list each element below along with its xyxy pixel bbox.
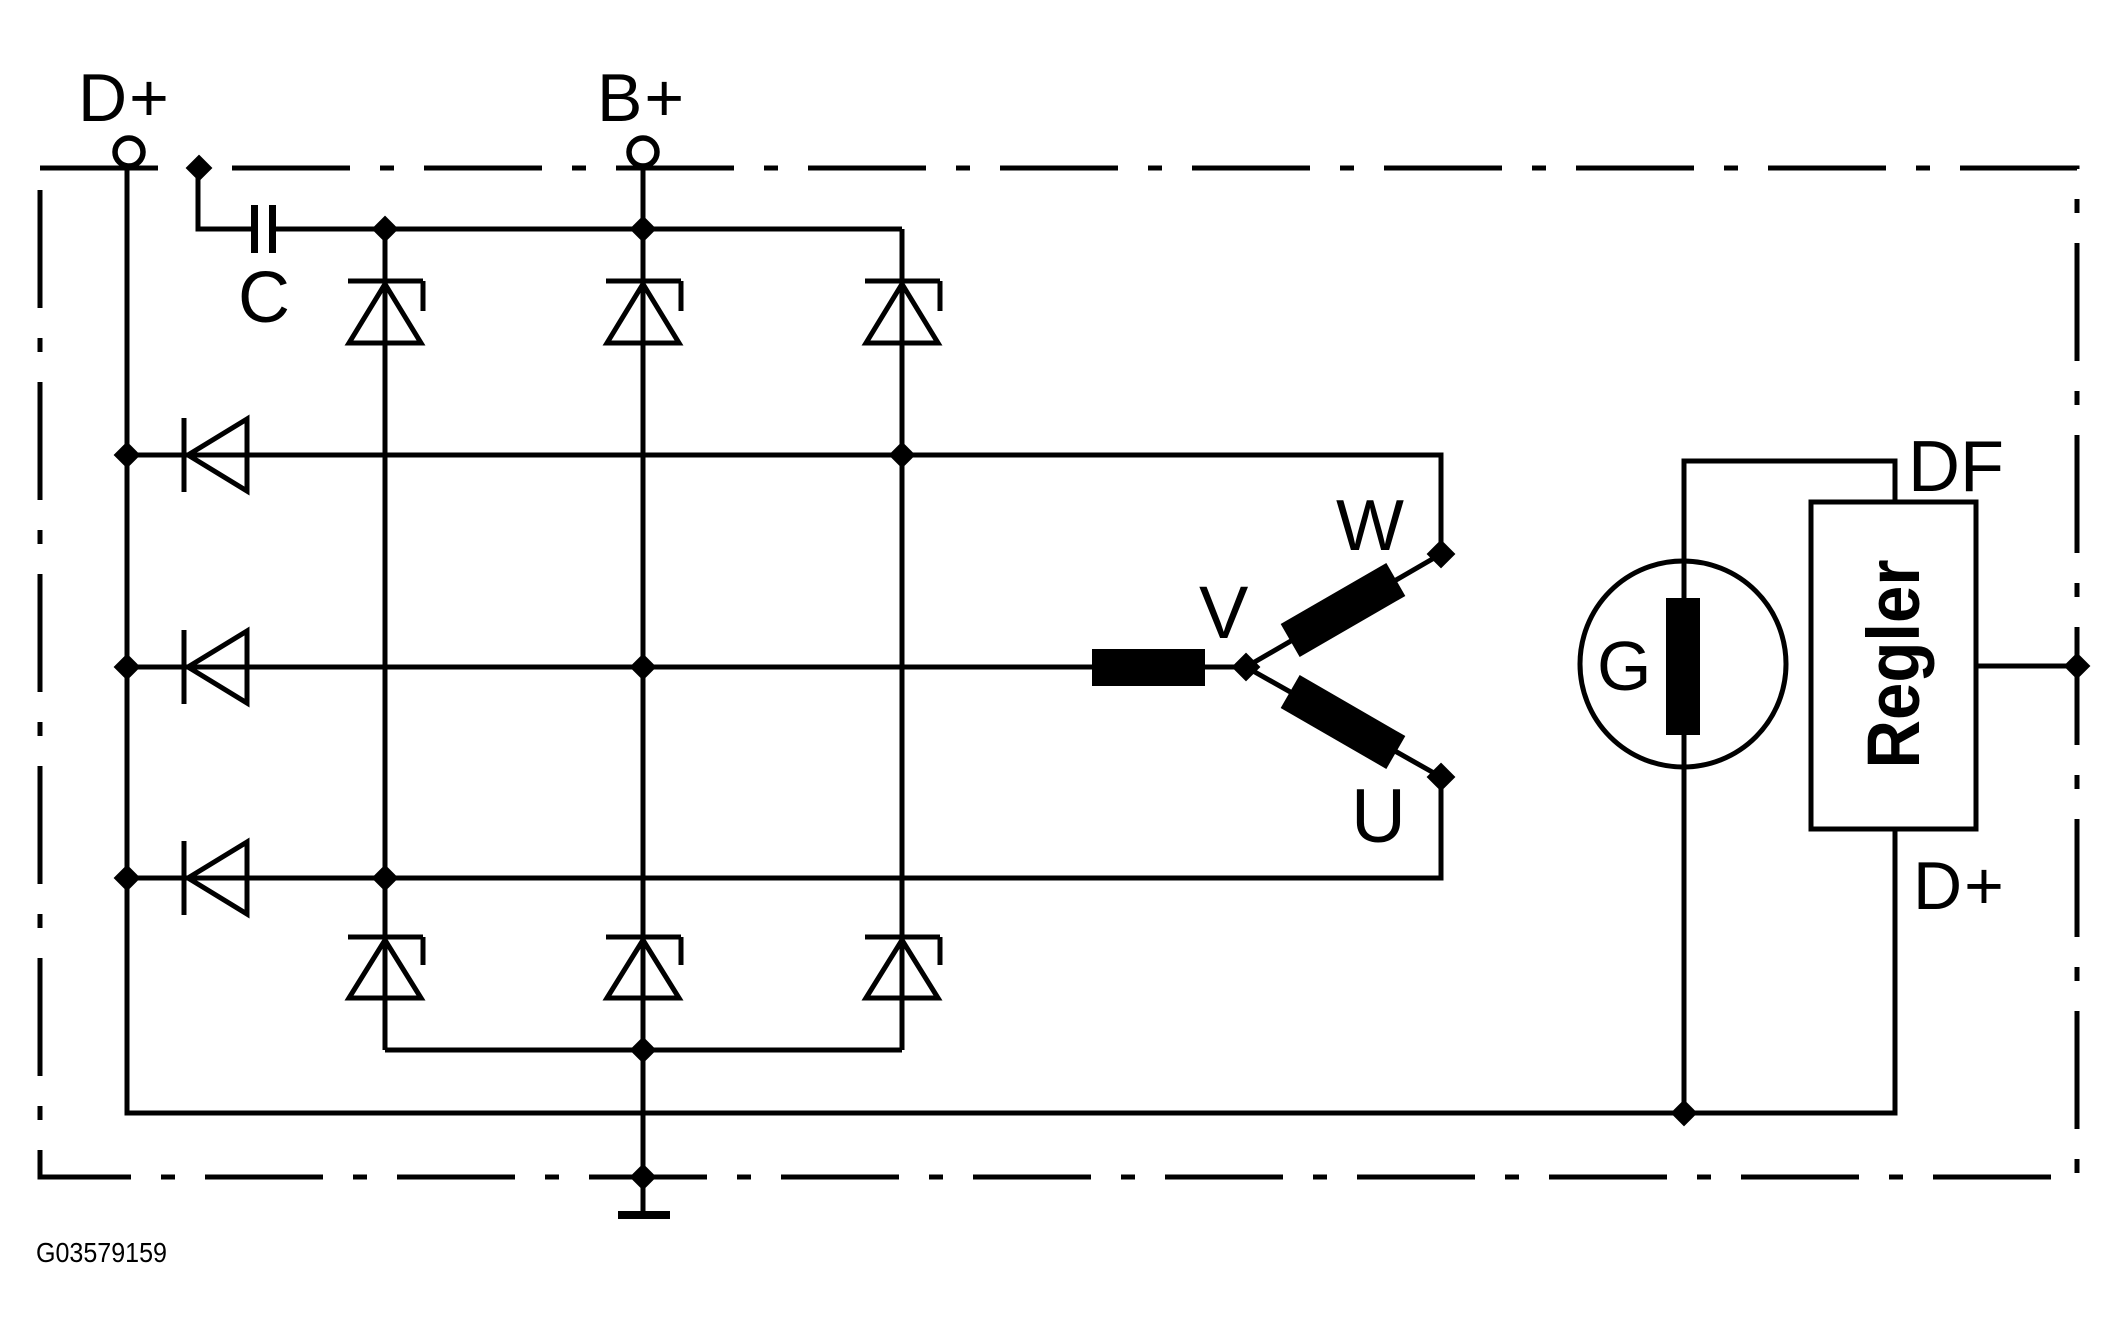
rotor G (slip-ring rotor) xyxy=(1580,561,1786,767)
wire col1 (phase U vertical) xyxy=(383,229,388,1050)
node W end xyxy=(1428,541,1454,567)
capacitor C xyxy=(251,205,258,253)
diode bottom 3 (negative rectifier, col3) xyxy=(865,937,940,998)
svg-text:G: G xyxy=(1597,627,1651,705)
diode bottom 2 (negative rectifier, col2) xyxy=(606,937,681,998)
svg-text:Regler: Regler xyxy=(1852,560,1935,769)
wire row1 (phase W horizontal) xyxy=(127,455,1441,554)
wire col3 (phase W vertical) xyxy=(900,229,905,1050)
node row3 col1 xyxy=(373,866,397,890)
svg-text:V: V xyxy=(1199,571,1249,654)
node row1 col3 xyxy=(890,443,914,467)
svg-text:DF: DF xyxy=(1908,427,2004,507)
terminal D+ xyxy=(115,138,143,166)
diode top 2 (positive rectifier, col2) xyxy=(606,281,681,343)
svg-text:W: W xyxy=(1336,486,1404,566)
wire U diagonal xyxy=(1246,667,1441,777)
diode left 1 (exciter diode, row1) xyxy=(184,418,247,492)
node row3 left xyxy=(115,866,139,890)
svg-text:G03579159: G03579159 xyxy=(36,1237,167,1268)
node star point xyxy=(1233,654,1259,680)
diode left 3 (exciter diode, row3) xyxy=(184,841,247,915)
wire col2 (B+ vertical, down to ground) xyxy=(641,165,646,1212)
node top bus col1 xyxy=(373,217,397,241)
wire Regler case pin xyxy=(1976,664,2077,669)
node row1 left xyxy=(115,443,139,467)
winding V (stator phase V) xyxy=(1092,649,1205,686)
wire G top to DF xyxy=(1684,461,1895,598)
node row2 left xyxy=(115,655,139,679)
svg-text:U: U xyxy=(1351,774,1406,859)
node top bus B+ xyxy=(631,217,655,241)
wire row3 (phase U horizontal) xyxy=(127,777,1441,878)
wire top bus (B+ bus) xyxy=(276,227,902,232)
node bottom bus B+ column xyxy=(631,1038,655,1062)
node U end xyxy=(1428,764,1454,790)
wire capacitor tap xyxy=(198,168,251,229)
diode bottom 1 (negative rectifier, col1) xyxy=(348,937,423,998)
svg-text:D+: D+ xyxy=(1913,848,2006,924)
node G / D+ rail xyxy=(1672,1101,1696,1125)
svg-text:D+: D+ xyxy=(78,60,171,136)
border (alternator case, dash-dot) xyxy=(40,168,2077,1177)
wire row2 (phase V horizontal) xyxy=(127,665,1246,670)
terminal B+ xyxy=(629,138,657,166)
wire D+ rail (left vertical + bottom rail to regulator) xyxy=(127,165,1895,1113)
wire W diagonal xyxy=(1246,554,1441,667)
diode left 2 (exciter diode, row2) xyxy=(184,630,247,704)
node row2 col2 xyxy=(631,655,655,679)
regulator Regler box xyxy=(1811,502,1976,829)
node D+ tap on case line xyxy=(187,156,211,180)
node ground / case xyxy=(631,1165,655,1189)
winding W (stator phase W) xyxy=(1281,563,1406,657)
winding U (stator phase U) xyxy=(1281,675,1406,769)
svg-text:B+: B+ xyxy=(597,60,686,136)
diode top 3 (positive rectifier, col3) xyxy=(865,281,940,343)
svg-text:C: C xyxy=(238,258,290,338)
wire G bottom to D+ rail xyxy=(1682,735,1687,1113)
diode top 1 (positive rectifier, col1) xyxy=(348,281,423,343)
ground bar xyxy=(618,1211,670,1219)
node case junction xyxy=(2065,654,2089,678)
wire bottom bus (negative diodes common) xyxy=(385,1048,902,1053)
